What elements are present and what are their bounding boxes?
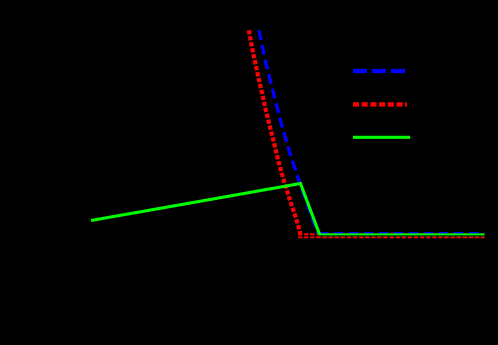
red dotted horizontal segment along x-axis (298, 233, 485, 238)
legend sample: red dotted (353, 102, 407, 106)
legend sample: green solid (353, 136, 410, 139)
green solid line: long shallow rise, sharp peak, steep drop, horizontal tail (91, 184, 485, 235)
legend sample: blue dashed (353, 69, 405, 73)
x-axis bottom spine (black, overdraws middle of colored band) (62, 235, 486, 237)
red dotted curve (steep demand-like curve, clipped at plot top y=30) (249, 30, 301, 235)
blue dashed curve (clipped at plot top y=30) (259, 30, 319, 234)
blue dashed horizontal segment (319, 232, 485, 235)
